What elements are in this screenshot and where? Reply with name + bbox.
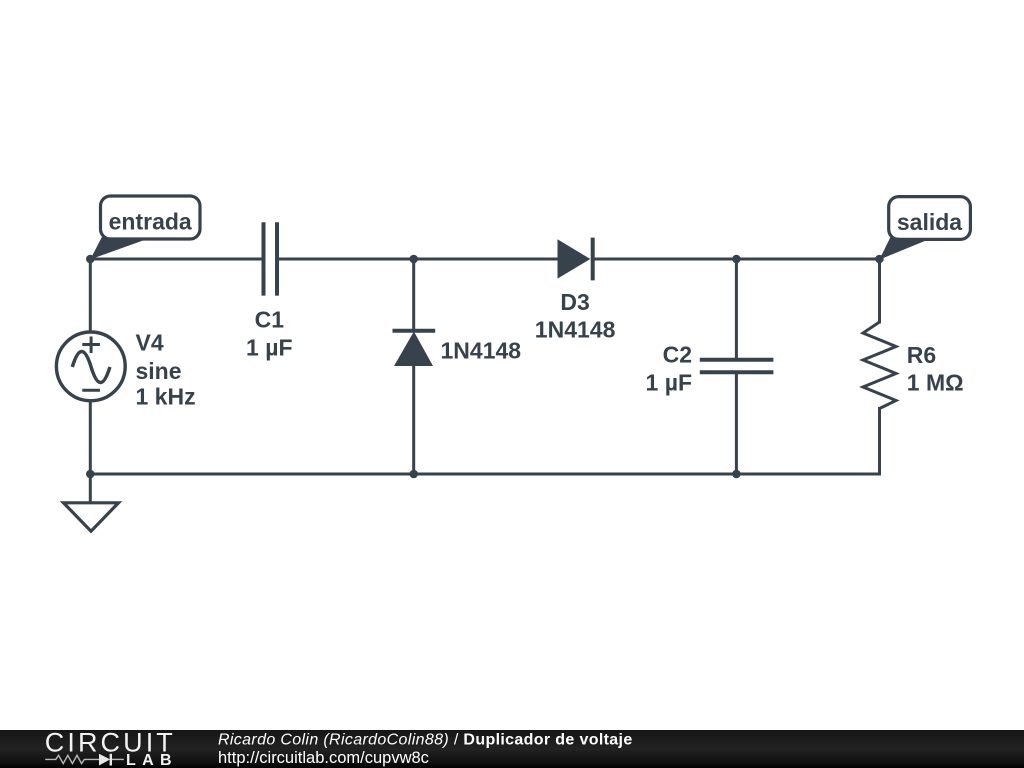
- svg-text:1N4148: 1N4148: [441, 338, 522, 364]
- svg-text:1 µF: 1 µF: [646, 369, 692, 395]
- svg-text:Ricardo Colin (RicardoColin88): Ricardo Colin (RicardoColin88) / Duplica…: [218, 732, 633, 749]
- svg-text:1N4148: 1N4148: [535, 316, 616, 342]
- svg-text:D3: D3: [560, 289, 589, 315]
- svg-text:entrada: entrada: [109, 209, 192, 235]
- svg-text:LAB: LAB: [126, 752, 173, 768]
- svg-text:1 µF: 1 µF: [246, 335, 292, 361]
- svg-text:salida: salida: [897, 209, 962, 235]
- svg-text:V4: V4: [136, 329, 164, 355]
- svg-text:C2: C2: [663, 342, 692, 368]
- svg-text:R6: R6: [907, 342, 936, 368]
- svg-text:sine: sine: [136, 358, 182, 384]
- svg-text:1 MΩ: 1 MΩ: [907, 370, 964, 396]
- svg-text:http://circuitlab.com/cupvw8c: http://circuitlab.com/cupvw8c: [218, 749, 429, 767]
- svg-text:1 kHz: 1 kHz: [136, 384, 196, 410]
- svg-text:C1: C1: [255, 307, 285, 333]
